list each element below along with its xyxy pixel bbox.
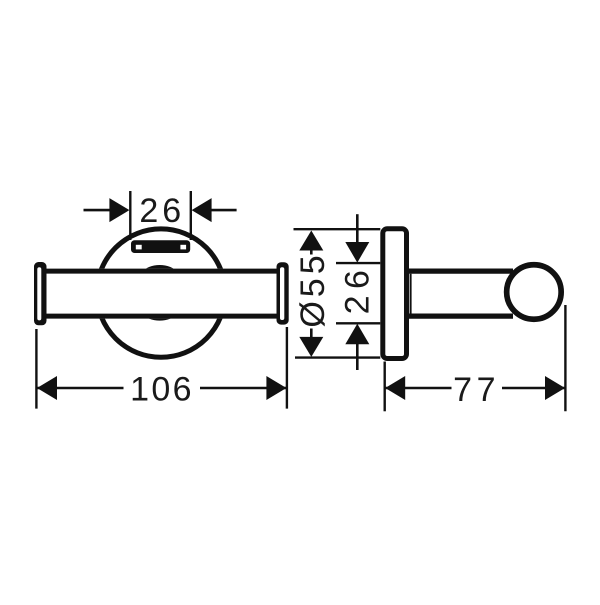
- side view: ball knob: [507, 265, 562, 320]
- dimension 26 (side): leader lines: [356, 214, 359, 242]
- side view: hook shaft: [407, 271, 513, 316]
- dimension 26 (side): extension lines: [336, 262, 380, 264]
- side view: rosette plate: [383, 229, 407, 359]
- front view: mounting slot bracket: [131, 240, 190, 253]
- dimension 26 (front, top): extension lines: [129, 191, 131, 240]
- dimension 106 (front, bottom): dimension line: [38, 387, 124, 390]
- dimension Ø55 (side, left): extension lines: [294, 228, 381, 230]
- svg-text:26: 26: [139, 192, 185, 230]
- dimension 26 (front, top): left leader and arrow: [84, 209, 111, 212]
- dimension 26 (side): bottom arrow: [345, 324, 369, 345]
- dimension 26 (front, top): right leader and arrow: [211, 209, 237, 212]
- dimension Ø55 (side, left): bottom arrow: [299, 337, 323, 357]
- dimension Ø55 (side, left): dimension line: [310, 250, 313, 337]
- dimension 77 (side, bottom): left arrow: [385, 376, 405, 400]
- dimension 106 (front, bottom): right arrow: [266, 376, 286, 400]
- dimension 106 (front, bottom): left arrow: [37, 376, 57, 400]
- front view: right end cap: [277, 262, 289, 324]
- dimension 77 (side, bottom): dimension line: [386, 387, 452, 390]
- front view: horizontal bar body: [42, 269, 281, 319]
- svg-text:106: 106: [130, 370, 194, 408]
- svg-text:Ø55: Ø55: [294, 251, 332, 327]
- svg-text:26: 26: [339, 264, 377, 315]
- dimension 106 (front, bottom): extension lines: [35, 329, 37, 409]
- front view: center hub circle: [134, 267, 185, 318]
- dimension 26 (side): top arrow: [345, 242, 369, 263]
- dimension 77 (side, bottom): right arrow: [545, 376, 565, 400]
- front view: wall rosette circle: [97, 229, 225, 357]
- dimension 77 (side, bottom): extension lines: [384, 362, 386, 412]
- dimension Ø55 (side, left): top arrow: [299, 231, 323, 251]
- front view: left end cap: [34, 262, 47, 325]
- svg-text:77: 77: [453, 371, 500, 409]
